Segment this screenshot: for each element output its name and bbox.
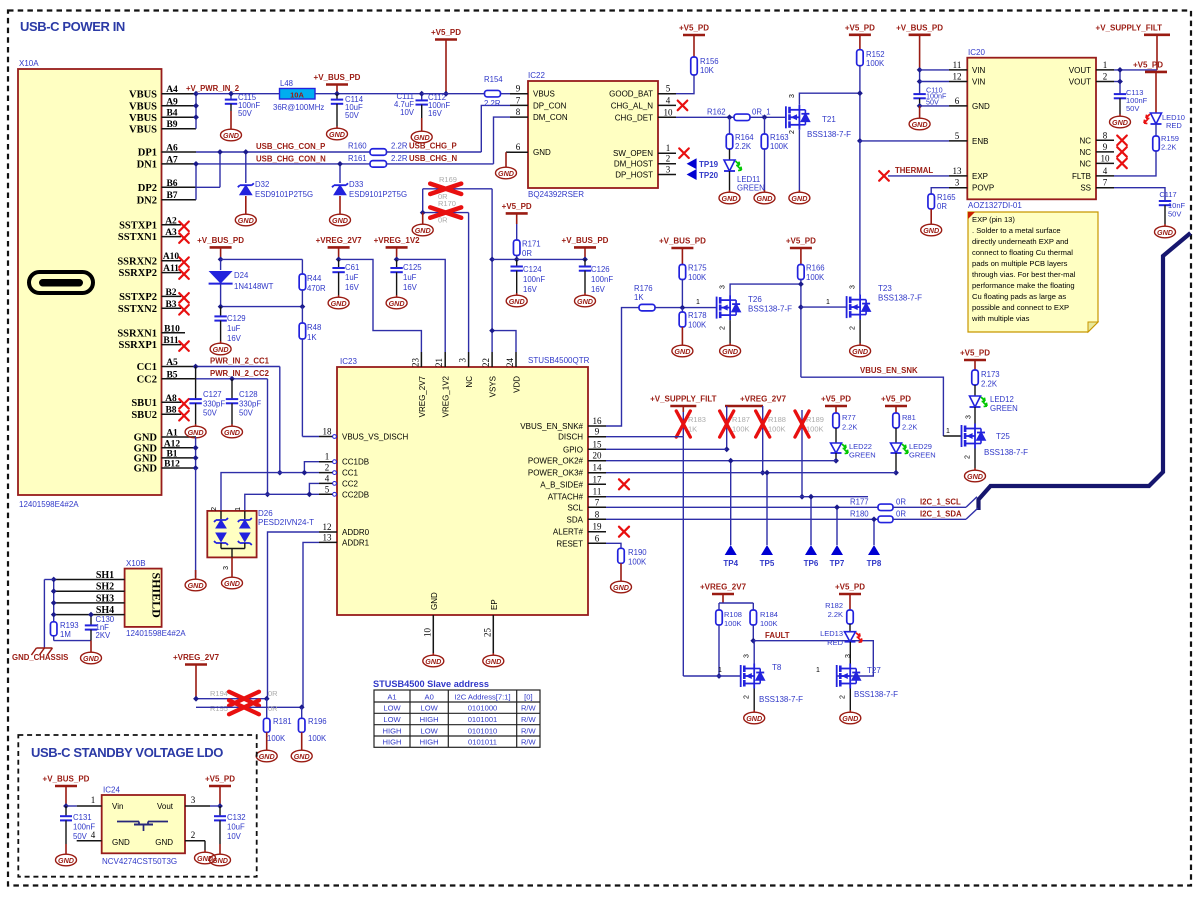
wire SCL net: [606, 506, 878, 508]
power flag +V5_PD at R81: [885, 405, 907, 408]
svg-text:SHIELD: SHIELD: [150, 573, 164, 619]
svg-text:POWER_OK3#: POWER_OK3#: [528, 469, 584, 478]
svg-text:470R: 470R: [307, 284, 326, 293]
svg-text:A2: A2: [165, 216, 177, 226]
svg-text:16V: 16V: [523, 285, 538, 294]
svg-text:8: 8: [595, 509, 600, 519]
svg-text:+VREG_2V7: +VREG_2V7: [173, 653, 220, 662]
svg-text:B8: B8: [165, 406, 176, 416]
ground under LED11: [729, 171, 731, 190]
svg-text:3: 3: [223, 566, 230, 570]
capacitor C114: [336, 94, 338, 100]
svg-text:A8: A8: [165, 394, 177, 404]
resistor R175: [679, 265, 686, 280]
bus I2C thick: [979, 233, 1191, 510]
X10B pin SH1: [54, 579, 125, 581]
ground under T8: [753, 689, 755, 711]
svg-text:STUSB4500 Slave address: STUSB4500 Slave address: [373, 679, 489, 689]
svg-text:+V5_PD: +V5_PD: [845, 23, 875, 32]
ground under C126: [575, 293, 596, 307]
svg-text:D32: D32: [255, 180, 269, 189]
svg-text:RESET: RESET: [556, 539, 583, 548]
svg-text:0R: 0R: [268, 689, 278, 698]
transistor T21 BSS138-7-F: [786, 105, 800, 130]
wire T21 drain to R152 node: [799, 93, 860, 105]
power flag +V5_PD at C132: [209, 785, 231, 788]
power flag +V_BUS_PD at IC20: [909, 33, 931, 36]
svg-text:2: 2: [744, 695, 751, 699]
svg-text:DP_CON: DP_CON: [533, 101, 567, 110]
wire SDA net: [606, 518, 878, 520]
wire CC1 row to D26: [221, 473, 319, 511]
svg-text:100K: 100K: [688, 321, 707, 330]
svg-text:TP19: TP19: [699, 160, 719, 169]
svg-text:11: 11: [953, 60, 962, 70]
svg-text:NCV4274CST50T3G: NCV4274CST50T3G: [102, 857, 177, 866]
IC23 pin 3 NC: [468, 352, 470, 367]
svg-text:T23: T23: [878, 284, 892, 293]
op IC22 body: [528, 81, 658, 188]
svg-text:GND: GND: [757, 194, 773, 203]
svg-text:GND: GND: [83, 654, 99, 663]
note EXP thermal: [968, 212, 1098, 332]
svg-text:1: 1: [696, 299, 700, 306]
wire R193 C130 rail: [54, 640, 91, 642]
power flag +V_BUS_PD at C126: [574, 246, 596, 249]
svg-text:SSRXN1: SSRXN1: [117, 328, 157, 339]
svg-text:6: 6: [595, 533, 600, 543]
svg-text:CC1DB: CC1DB: [342, 458, 369, 467]
IC20 pin 4 FLTB: [1096, 175, 1114, 177]
svg-text:GND: GND: [1112, 118, 1128, 127]
svg-text:A10: A10: [163, 252, 180, 262]
wire CC2 join: [309, 483, 319, 494]
svg-text:5: 5: [955, 131, 960, 141]
power flag +V5_PD at R152: [849, 33, 871, 36]
capacitor C130: [90, 615, 92, 626]
ground under C110: [920, 105, 949, 107]
capacitor C110: [913, 94, 925, 98]
ground under T21: [798, 130, 800, 190]
svg-text:SSRXN2: SSRXN2: [117, 256, 157, 267]
ground under T26: [729, 320, 731, 343]
ground under C117: [1155, 224, 1176, 238]
svg-text:17: 17: [593, 474, 603, 484]
wire D24 R44 R48 node: [221, 306, 303, 308]
svg-text:2: 2: [964, 455, 971, 459]
led LED11 GREEN: [724, 160, 742, 171]
svg-text:Vout: Vout: [157, 802, 174, 811]
wire POWER_OK3 net: [606, 472, 896, 474]
svg-text:BSS138-7-F: BSS138-7-F: [748, 305, 792, 314]
svg-text:. Solder to a metal surface: . Solder to a metal surface: [972, 226, 1061, 235]
wire V5 to VSYS VDD: [492, 258, 517, 260]
svg-text:100K: 100K: [806, 425, 824, 434]
power flag +V5_PD at R156: [683, 34, 705, 37]
ground under C124: [506, 293, 527, 307]
power flag +V_BUS_PD at D24: [210, 246, 232, 249]
svg-text:BQ24392RSER: BQ24392RSER: [528, 190, 584, 199]
svg-text:+V5_PD: +V5_PD: [835, 583, 865, 592]
section box USB-C STANDBY VOLTAGE LDO: [18, 735, 256, 877]
IC23 pin 1 CC1DB: [319, 461, 337, 463]
svg-text:GREEN: GREEN: [990, 404, 1018, 413]
svg-text:7: 7: [516, 95, 521, 105]
power flag +VREG_2V7 at R187 R188: [725, 405, 763, 408]
svg-text:SSTXP2: SSTXP2: [119, 292, 157, 303]
svg-text:I2C_1_SDA: I2C_1_SDA: [920, 510, 962, 519]
svg-text:GND: GND: [259, 752, 275, 761]
testpoint TP7: [836, 507, 838, 545]
svg-text:3: 3: [955, 178, 960, 188]
svg-text:C132: C132: [227, 813, 246, 822]
wire DISCH net: [606, 436, 683, 438]
wire DN1 to DN2: [195, 164, 197, 200]
wire R152 to ENB node: [859, 66, 861, 141]
svg-text:R162: R162: [707, 108, 726, 117]
resistor R81: [893, 413, 900, 428]
wire LED29 to POWER_OK3: [895, 453, 897, 473]
svg-text:2.2R: 2.2R: [391, 154, 408, 163]
svg-text:2: 2: [666, 154, 671, 164]
svg-text:4: 4: [325, 473, 330, 483]
svg-text:POWER_OK2#: POWER_OK2#: [528, 457, 584, 466]
IC23 pin 9 DISCH: [588, 436, 606, 438]
svg-text:A0: A0: [425, 693, 434, 702]
svg-text:R171: R171: [522, 240, 541, 249]
svg-text:LOW: LOW: [420, 726, 438, 735]
svg-text:T26: T26: [748, 295, 762, 304]
IC22 pin 1 SW_OPEN: [658, 152, 676, 154]
svg-text:SH1: SH1: [96, 570, 114, 581]
capacitor C131: [65, 806, 67, 816]
svg-text:+V_SUPPLY_FILT: +V_SUPPLY_FILT: [650, 395, 717, 404]
svg-text:5: 5: [325, 484, 330, 494]
svg-text:+V_SUPPLY_FILT: +V_SUPPLY_FILT: [1096, 23, 1163, 32]
IC20 pin 3 POVP: [949, 187, 967, 189]
svg-text:0R: 0R: [896, 510, 906, 519]
svg-text:I2C_1_SCL: I2C_1_SCL: [920, 498, 961, 507]
svg-text:GND: GND: [967, 472, 983, 481]
IC23 pin 19 ALERT#: [588, 531, 606, 533]
ground under T27: [849, 689, 851, 711]
ground under IC24 pin2: [195, 850, 216, 864]
wire FAULT: [752, 625, 754, 641]
ground under T23: [859, 320, 861, 343]
resistor R184: [750, 610, 757, 625]
svg-text:R48: R48: [307, 323, 321, 332]
svg-text:B9: B9: [166, 120, 177, 130]
svg-text:SSTXP1: SSTXP1: [119, 220, 157, 231]
IC23 pin 10 GND: [432, 615, 434, 653]
svg-text:14: 14: [593, 463, 603, 473]
svg-text:C117: C117: [1159, 190, 1176, 199]
svg-text:USB-C STANDBY VOLTAGE LDO: USB-C STANDBY VOLTAGE LDO: [31, 745, 223, 760]
svg-text:+V_BUS_PD: +V_BUS_PD: [659, 237, 706, 246]
svg-text:NC: NC: [1079, 136, 1091, 145]
svg-text:X10A: X10A: [19, 59, 39, 68]
svg-text:USB_CHG_CON_N: USB_CHG_CON_N: [256, 155, 326, 164]
power flag +V_BUS_PD at C131: [55, 785, 77, 788]
svg-text:TP20: TP20: [699, 171, 719, 180]
wire VOUT: [1114, 69, 1157, 71]
ground under C129: [210, 341, 231, 355]
svg-text:0R: 0R: [268, 704, 278, 713]
svg-text:connect to floating Cu thermal: connect to floating Cu thermal: [972, 248, 1073, 257]
svg-text:13: 13: [953, 166, 963, 176]
svg-text:R81: R81: [902, 413, 916, 422]
led LED13 RED: [849, 624, 851, 632]
ground under C125: [386, 295, 407, 309]
IC23 pin 16 VBUS_EN_SNK#: [588, 425, 606, 427]
svg-text:1: 1: [946, 428, 950, 435]
svg-text:R175: R175: [688, 264, 707, 273]
power flag +V_SUPPLY_FILT: [1144, 33, 1170, 36]
resistor R196: [299, 704, 305, 710]
svg-text:T27: T27: [867, 666, 881, 675]
resistor R171: [513, 240, 520, 256]
svg-text:R/W: R/W: [521, 704, 537, 713]
IC22 pin 3 DP_HOST: [658, 174, 676, 176]
svg-text:16V: 16V: [227, 334, 242, 343]
svg-text:50V: 50V: [73, 832, 88, 841]
no connect CHG_AL_N: [678, 101, 688, 111]
svg-text:GND: GND: [238, 216, 254, 225]
IC24 internal transistor glyph: [117, 822, 168, 832]
svg-text:R180: R180: [850, 510, 869, 519]
diode D24 1N4148WT: [218, 257, 224, 263]
svg-text:STUSB4500QTR: STUSB4500QTR: [528, 356, 590, 365]
svg-text:R194: R194: [210, 689, 228, 698]
svg-text:0R: 0R: [522, 249, 532, 258]
svg-text:SCL: SCL: [567, 503, 583, 512]
svg-text:36R@100MHz: 36R@100MHz: [273, 103, 324, 112]
svg-text:C126: C126: [591, 265, 610, 274]
ground under C128: [222, 424, 243, 438]
svg-text:16V: 16V: [428, 109, 443, 118]
wire DP1 net: [196, 151, 370, 153]
svg-text:1: 1: [666, 143, 671, 153]
svg-text:VBUS: VBUS: [129, 101, 157, 112]
svg-text:1K: 1K: [634, 293, 644, 302]
IC22 pin 10 CHG_DET: [658, 116, 676, 118]
transistor T25 BSS138-7-F: [974, 407, 976, 424]
svg-text:+V5_PD: +V5_PD: [205, 775, 235, 784]
svg-text:2.2K: 2.2K: [981, 380, 998, 389]
wire CC1 net: [196, 366, 280, 368]
svg-text:2: 2: [211, 507, 218, 511]
svg-text:GND: GND: [389, 299, 405, 308]
svg-text:R108: R108: [724, 610, 742, 619]
IC20 pin 10 NC: [1096, 162, 1114, 164]
resistor R108: [716, 610, 723, 625]
svg-text:GND: GND: [224, 428, 240, 437]
svg-text:VOUT: VOUT: [1069, 66, 1091, 75]
svg-text:GND: GND: [332, 216, 348, 225]
capacitor C128: [231, 379, 233, 399]
svg-text:6: 6: [955, 96, 960, 106]
IC20 pin 6 GND: [949, 105, 967, 107]
IC24 pin 3 Vout: [185, 805, 210, 807]
svg-text:50V: 50V: [1168, 210, 1181, 219]
X10B pin SH4: [54, 614, 125, 616]
chassis ground: [31, 648, 52, 655]
svg-text:USB_CHG_P: USB_CHG_P: [409, 142, 457, 151]
wire R108 R184 feed: [719, 602, 753, 604]
svg-text:R181: R181: [273, 717, 292, 726]
svg-text:9: 9: [516, 84, 521, 94]
svg-text:2.2K: 2.2K: [828, 610, 843, 619]
svg-text:10uF: 10uF: [227, 823, 245, 832]
svg-text:A6: A6: [166, 144, 178, 154]
svg-text:15: 15: [593, 439, 603, 449]
svg-text:SDA: SDA: [567, 515, 584, 524]
IC23 pin 13 ADDR1: [319, 541, 337, 543]
svg-text:DP_HOST: DP_HOST: [615, 171, 653, 180]
wire T8 drain: [753, 641, 755, 664]
svg-text:GND: GND: [415, 226, 431, 235]
svg-text:GND: GND: [972, 102, 990, 111]
transistor T27 BSS138-7-F: [837, 664, 851, 689]
svg-text:VOUT: VOUT: [1069, 78, 1091, 87]
wire GPIO net: [606, 448, 727, 450]
svg-text:GND: GND: [791, 194, 807, 203]
wire ADDR0 column: [268, 532, 320, 699]
IC20 pin 2 VOUT: [1096, 81, 1114, 83]
svg-text:0R: 0R: [937, 202, 947, 211]
testpoint TP5: [766, 473, 768, 545]
ground under C114: [327, 126, 348, 140]
wire L48 to V_BUS_PD node: [315, 93, 446, 95]
svg-text:2.2K: 2.2K: [1161, 143, 1176, 152]
svg-text:GND: GND: [746, 714, 762, 723]
resistor R152: [857, 50, 864, 66]
svg-text:B10: B10: [164, 324, 180, 334]
svg-text:R156: R156: [700, 57, 719, 66]
IC23 pin 15 GPIO: [588, 448, 606, 450]
svg-text:A1: A1: [166, 429, 178, 439]
IC23 pin 14 POWER_OK3#: [588, 472, 606, 474]
svg-text:SBU2: SBU2: [131, 410, 157, 421]
bus entry SDA: [966, 508, 978, 519]
svg-text:X10B: X10B: [126, 559, 146, 568]
svg-text:1uF: 1uF: [345, 273, 359, 282]
svg-text:TP6: TP6: [804, 559, 819, 568]
svg-text:R184: R184: [760, 610, 778, 619]
svg-text:GND: GND: [577, 297, 593, 306]
IC20 pin 9 NC: [1096, 151, 1114, 153]
svg-text:B11: B11: [163, 336, 179, 346]
capacitor C125: [394, 257, 400, 263]
wire T8 gate: [683, 675, 740, 677]
ground under C113: [1110, 114, 1131, 128]
svg-text:R195: R195: [210, 704, 228, 713]
svg-text:VIN: VIN: [972, 66, 986, 75]
svg-text:+V5_PD: +V5_PD: [502, 202, 532, 211]
svg-text:LOW: LOW: [383, 704, 401, 713]
svg-text:R187: R187: [732, 415, 750, 424]
svg-text:GND: GND: [425, 657, 441, 666]
svg-text:1: 1: [235, 507, 242, 511]
svg-text:VREG_2V7: VREG_2V7: [418, 375, 427, 417]
IC22 pin 9 VBUS: [510, 93, 528, 95]
ground under R169 R170: [422, 213, 424, 222]
svg-text:HIGH: HIGH: [420, 738, 439, 747]
IC23 pin 11 ATTACH#: [588, 496, 606, 498]
ground under R190: [620, 563, 622, 579]
regulator IC24 body: [102, 795, 185, 853]
svg-text:+V5_PD: +V5_PD: [679, 24, 709, 33]
power flag +V5_PD at R182: [839, 593, 861, 596]
capacitor C129: [220, 307, 222, 316]
svg-text:CC2: CC2: [137, 374, 157, 385]
IC23 pin 22 VSYS: [491, 352, 493, 367]
resistor R178: [681, 308, 683, 312]
svg-text:C131: C131: [73, 813, 92, 822]
IC22 pin 8 DM_CON: [510, 116, 528, 118]
svg-text:11: 11: [593, 487, 602, 497]
svg-text:100nF: 100nF: [591, 275, 613, 284]
svg-text:BSS138-7-F: BSS138-7-F: [759, 695, 803, 704]
svg-text:B1: B1: [166, 449, 177, 459]
svg-text:SSTXN1: SSTXN1: [118, 232, 157, 243]
svg-text:3: 3: [850, 285, 857, 289]
testpoint TP20: [687, 169, 697, 180]
svg-text:BSS138-7-F: BSS138-7-F: [984, 448, 1028, 457]
svg-text:10V: 10V: [227, 832, 242, 841]
resistor R164: [727, 114, 733, 120]
svg-text:VBUS_EN_SNK#: VBUS_EN_SNK#: [520, 422, 583, 431]
svg-text:HIGH: HIGH: [383, 738, 402, 747]
IC20 pin 5 ENB: [949, 140, 967, 142]
svg-text:100K: 100K: [732, 425, 750, 434]
svg-text:GND: GND: [674, 347, 690, 356]
svg-text:VBUS: VBUS: [533, 90, 555, 99]
capacitor C61: [336, 257, 342, 263]
ground under C131: [65, 844, 67, 852]
wire VBUS_EN_SNK# to R176: [606, 308, 639, 426]
svg-text:2: 2: [840, 695, 847, 699]
wire VIN feed: [919, 70, 921, 94]
IC23 pin 21 VREG_1V2: [444, 352, 446, 367]
table STUSB4500 addresses: [374, 690, 540, 747]
svg-text:5: 5: [666, 84, 671, 94]
USB-C receptacle glyph: [29, 272, 93, 293]
led LED22 GREEN: [835, 428, 837, 443]
IC24 pin 2 GND: [185, 840, 205, 842]
svg-text:50V: 50V: [239, 409, 254, 418]
svg-text:50V: 50V: [1126, 104, 1139, 113]
ground under C127: [185, 424, 206, 438]
capacitor C115: [230, 94, 232, 100]
svg-text:GND: GND: [923, 226, 939, 235]
svg-text:GND: GND: [188, 428, 204, 437]
svg-text:IC24: IC24: [103, 786, 120, 795]
svg-text:2.2K: 2.2K: [902, 423, 917, 432]
svg-text:R166: R166: [806, 264, 825, 273]
svg-text:PWR_IN_2_CC1: PWR_IN_2_CC1: [210, 357, 270, 366]
svg-text:50V: 50V: [345, 111, 360, 120]
svg-text:2.2K: 2.2K: [735, 142, 752, 151]
D26 common rail: [221, 548, 245, 550]
svg-text:Cu floating pads as large as: Cu floating pads as large as: [972, 292, 1066, 301]
svg-text:2: 2: [850, 326, 857, 330]
svg-text:3: 3: [666, 165, 671, 175]
svg-text:directly underneath EXP and: directly underneath EXP and: [972, 237, 1069, 246]
svg-text:GND: GND: [414, 133, 430, 142]
svg-text:R/W: R/W: [521, 726, 537, 735]
svg-text:C128: C128: [239, 390, 258, 399]
